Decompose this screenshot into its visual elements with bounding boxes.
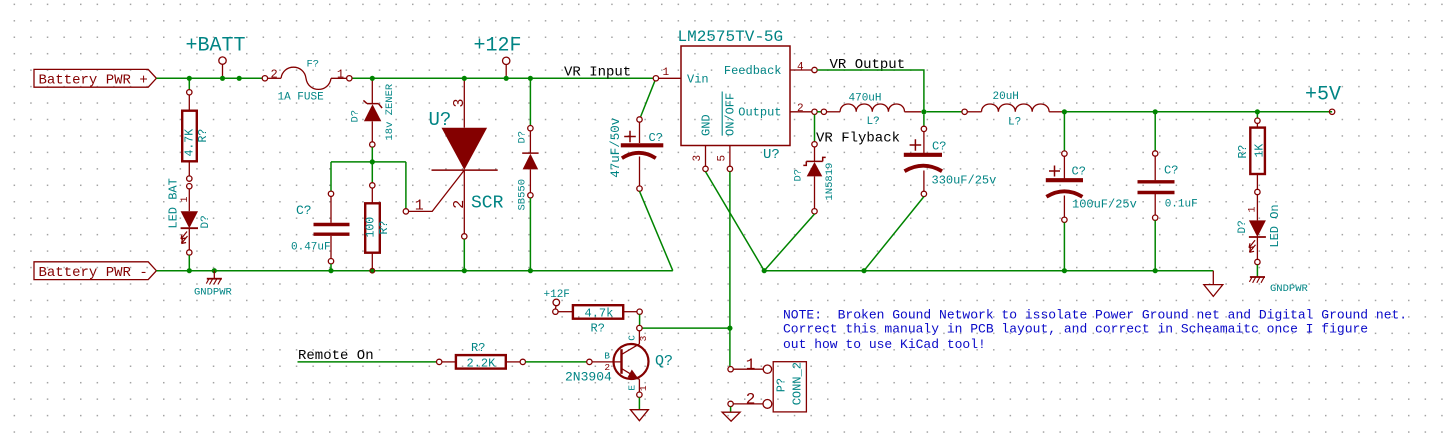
transistor Q1 2N3904 (587, 325, 649, 397)
wire 0.1uF to ground bus (1154, 220, 1156, 270)
fuse F1 (262, 67, 352, 89)
svg-text:20uH: 20uH (993, 91, 1019, 103)
wire 2.2K to base (526, 361, 587, 363)
svg-text:R?: R? (591, 322, 605, 336)
junction C (237, 76, 242, 81)
svg-text:330uF/25v: 330uF/25v (932, 174, 997, 188)
svg-text:1: 1 (663, 67, 670, 79)
svg-text:2.2K: 2.2K (467, 357, 497, 371)
svg-text:2: 2 (271, 67, 278, 81)
svg-text:4.7k: 4.7k (585, 306, 614, 320)
svg-text:U?: U? (429, 109, 452, 131)
junction 1K tap (1255, 109, 1260, 114)
svg-text:2: 2 (451, 200, 468, 209)
junction C 0.47uF bus (328, 268, 333, 273)
svg-text:R?: R? (471, 341, 485, 355)
svg-text:D?: D? (1237, 220, 1249, 233)
wire minus bus (power ground net) (156, 270, 672, 272)
junction 330uF ground (861, 268, 866, 273)
wire 100uF to ground bus (1063, 223, 1065, 271)
svg-text:F?: F? (307, 59, 320, 71)
junction ground node (762, 268, 767, 273)
svg-text:C?: C? (932, 140, 946, 154)
resistor R5 2.2K (437, 355, 526, 369)
wire 4.7k to collector node (639, 314, 641, 325)
svg-text:1: 1 (415, 198, 424, 215)
ground GND digital bus end (1204, 271, 1223, 297)
svg-text:C?: C? (1072, 164, 1086, 178)
svg-text:Feedback: Feedback (724, 64, 782, 78)
wire diagonal C 47uF to minus bus end (640, 191, 673, 270)
svg-text:470uH: 470uH (849, 92, 882, 104)
SCR U2 (403, 78, 498, 239)
wire LED to minus bus (188, 255, 190, 271)
wire feedback to output node (817, 70, 924, 112)
junction GNDPWR tap (212, 268, 217, 273)
svg-text:NOTE: Broken Gound Network to: NOTE: Broken Gound Network to issolate P… (783, 307, 1407, 322)
svg-text:100uF/25v: 100uF/25v (1072, 197, 1137, 211)
svg-text:1: 1 (746, 356, 756, 374)
wire down to C 0.47uF (330, 162, 332, 194)
svg-text:1N5819: 1N5819 (824, 163, 836, 201)
junction output node (921, 109, 926, 114)
inductor L1 470uH (821, 104, 921, 115)
resistor R2 100 (365, 183, 380, 271)
wire GND pin diagonal to ground junction (706, 172, 765, 271)
power symbol +12F small (544, 289, 570, 309)
diode D3 SB550 (522, 78, 538, 270)
svg-text:B: B (604, 351, 610, 362)
svg-text:2N3904: 2N3904 (565, 369, 612, 384)
svg-text:3: 3 (638, 335, 649, 341)
wire ON/OFF pin down to transistor collector node (729, 172, 731, 329)
ground GNDPWR left (206, 271, 222, 285)
LED D1 LED BAT (181, 184, 198, 256)
svg-text:GNDPWR: GNDPWR (1270, 283, 1309, 295)
svg-text:+5V: +5V (1305, 83, 1341, 106)
svg-text:1: 1 (180, 196, 191, 202)
svg-text:C?: C? (1164, 164, 1178, 178)
capacitor C1 0.47uF (314, 191, 350, 264)
wire emitter to ground (638, 397, 640, 409)
svg-text:E: E (627, 385, 638, 391)
svg-text:GND: GND (700, 114, 714, 136)
wire Remote On to 2.2K (298, 361, 437, 363)
svg-text:C?: C? (649, 131, 663, 145)
wire C 0.47uF to bus (330, 264, 332, 271)
wire R1 branch (188, 78, 190, 92)
svg-text:C: C (627, 335, 638, 341)
svg-text:L?: L? (1008, 116, 1021, 128)
svg-text:R?: R? (197, 129, 210, 143)
wire 330uF to ground junction (864, 197, 924, 271)
svg-text:+BATT: +BATT (186, 35, 246, 58)
junction SCR anode (462, 76, 467, 81)
svg-text:Vin: Vin (687, 73, 709, 87)
diode D4 1N5819 (803, 142, 825, 214)
svg-text:1: 1 (638, 385, 649, 391)
svg-text:4.7K: 4.7K (183, 129, 196, 157)
svg-text:D?: D? (350, 110, 362, 123)
junction +12F (504, 76, 509, 81)
svg-text:Output: Output (738, 106, 781, 120)
wire gate node to R 100 (371, 162, 373, 186)
power symbol +12F top (474, 35, 522, 79)
svg-text:out how to use KiCad tool!: out how to use KiCad tool! (783, 337, 986, 352)
wire diagonal Vin to C 47uF (640, 78, 656, 119)
pin 1 Vin (659, 77, 681, 79)
junction LED bottom (187, 268, 192, 273)
svg-text:1: 1 (1248, 206, 1259, 212)
wire flyback diode to ground junction (764, 214, 814, 271)
junction 0.1uF ground (1153, 268, 1158, 273)
LED D5 LED On (1249, 195, 1266, 265)
svg-text:5: 5 (716, 155, 728, 162)
resistor R4 4.7k (553, 305, 643, 319)
svg-text:Correct this manualy in PCB la: Correct this manualy in PCB layout, and … (783, 322, 1368, 337)
wire down to CONN pin 1 (729, 328, 731, 369)
svg-text:P?: P? (775, 378, 789, 392)
pin 4 Feedback (790, 69, 812, 71)
svg-text:SCR: SCR (471, 193, 504, 213)
wire down to SCR gate (405, 162, 407, 212)
junction SCR bus (462, 268, 467, 273)
wire LED On to GNDPWR (1256, 265, 1258, 277)
wire gate node horizontal (331, 161, 406, 163)
svg-text:100: 100 (365, 217, 378, 238)
connector P1 CONN_2 (728, 362, 807, 412)
wire zener to gate node (371, 147, 373, 162)
junction B (220, 76, 225, 81)
svg-text:GNDPWR: GNDPWR (194, 286, 233, 298)
svg-text:4: 4 (797, 61, 804, 73)
wire collector node horizontal (640, 327, 730, 329)
hierarchical label Battery PWR - (34, 262, 156, 280)
capacitor C5 0.1uF (1138, 112, 1175, 221)
hierarchical label Battery PWR + (34, 69, 156, 87)
junction 0.1uF tap (1153, 109, 1158, 114)
ground GNDPWR right (1249, 277, 1265, 283)
svg-text:R?: R? (378, 221, 391, 235)
pin 3 GND (705, 146, 707, 167)
zener diode D2 18v ZENER (363, 78, 382, 147)
svg-text:U?: U? (763, 147, 780, 163)
junction gate node (370, 159, 375, 164)
svg-text:VR Flyback: VR Flyback (816, 130, 900, 146)
svg-text:1A FUSE: 1A FUSE (278, 91, 325, 103)
wire output pin to inductor (817, 111, 821, 113)
svg-text:VR Input: VR Input (564, 65, 631, 81)
svg-text:Q?: Q? (655, 353, 673, 370)
svg-text:3: 3 (692, 155, 704, 162)
junction collector node (727, 326, 732, 331)
svg-text:LED BAT: LED BAT (166, 178, 180, 228)
wire digital ground bus (764, 270, 1213, 272)
ground GND CONN pin2 (722, 412, 740, 421)
wire output pin down to flyback diode (814, 115, 816, 142)
pin 5 ON/OFF (729, 146, 731, 167)
wire CONN pin2 to ground (730, 407, 732, 413)
svg-text:D?: D? (200, 215, 212, 228)
junction A (187, 76, 192, 81)
junction zener top (370, 76, 375, 81)
wire output node to 20uH (927, 111, 962, 113)
svg-text:2: 2 (797, 103, 804, 115)
wire SCR cathode to bus (463, 239, 465, 271)
svg-text:D?: D? (793, 169, 805, 182)
wire +5V rail (1064, 111, 1332, 113)
junction 20uH out (1062, 109, 1067, 114)
wire top rail from flag to fuse (156, 77, 262, 79)
capacitor C3 330uF/25v (904, 115, 942, 197)
resistor R1 4.7K (182, 90, 197, 182)
svg-text:ON/OFF: ON/OFF (724, 93, 738, 136)
svg-text:47uF/50v: 47uF/50v (609, 117, 623, 178)
regulator U1 LM2575TV-5G box (681, 46, 790, 146)
svg-text:LED On: LED On (1268, 204, 1282, 247)
wire top rail fuse to Vin (352, 77, 656, 79)
junction 100uF ground (1062, 268, 1067, 273)
junction SB550 top (528, 76, 533, 81)
ground GND emitter (630, 410, 648, 421)
svg-text:18v ZENER: 18v ZENER (384, 83, 396, 140)
svg-text:R?: R? (1237, 145, 1250, 159)
svg-text:SB550: SB550 (517, 179, 529, 211)
svg-text:D?: D? (517, 131, 529, 144)
svg-text:C?: C? (296, 203, 312, 218)
inductor L2 20uH (962, 104, 1065, 115)
capacitor C4 100uF/25v (1046, 112, 1083, 223)
pin 2 Output (790, 111, 812, 113)
svg-text:2: 2 (746, 391, 756, 409)
junction SB550 bus (528, 268, 533, 273)
capacitor C2 47uF/50v (621, 76, 664, 192)
note text (783, 307, 1407, 352)
svg-text:Battery PWR +: Battery PWR + (39, 73, 148, 89)
svg-text:1K: 1K (1254, 144, 1267, 158)
svg-text:0.47uF: 0.47uF (291, 242, 331, 254)
junction R 100 bus (370, 268, 375, 273)
svg-text:L?: L? (867, 116, 880, 128)
svg-text:1: 1 (337, 67, 344, 81)
svg-text:3: 3 (451, 98, 468, 107)
resistor R3 1K (1250, 112, 1265, 195)
svg-text:0.1uF: 0.1uF (1165, 198, 1198, 210)
power symbol +BATT (186, 35, 246, 79)
svg-text:+12F: +12F (474, 35, 522, 58)
svg-text:LM2575TV-5G: LM2575TV-5G (678, 28, 784, 46)
power symbol +5V open end (1329, 109, 1334, 114)
svg-text:Battery PWR -: Battery PWR - (39, 265, 148, 281)
svg-text:CONN_2: CONN_2 (791, 362, 805, 405)
